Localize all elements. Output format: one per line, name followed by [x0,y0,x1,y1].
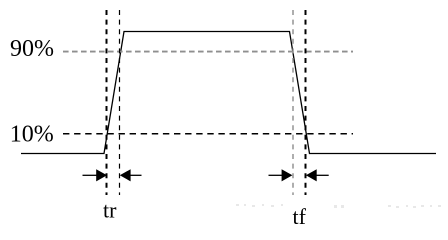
pulse waveform [21,32,436,154]
vertical dashed marker at rise 10% crossing [106,10,108,195]
svg-text:tr: tr [103,198,117,223]
vertical dashed marker at fall 90% crossing (gray) [292,10,294,195]
faint watermark dots [236,204,441,208]
vertical dashed marker at fall 10% crossing [305,10,307,195]
svg-text:10%: 10% [10,122,54,148]
left arrow pointing right (tr interval) [83,174,98,176]
svg-text:tf: tf [293,204,307,229]
90% level dashed line (gray) [63,51,353,53]
right arrow pointing left (tr interval) [130,174,142,176]
svg-text:90%: 90% [10,36,54,62]
right arrow pointing left (tf interval) [315,174,329,176]
left arrow pointing right (tf interval) [269,174,284,176]
10% level dashed line (black) [63,133,353,135]
vertical dashed marker at rise 90% crossing [119,10,121,195]
